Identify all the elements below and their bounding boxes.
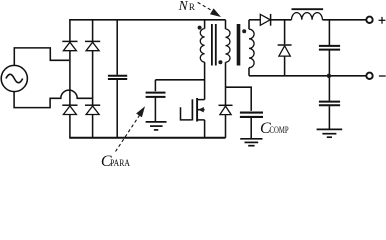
wire source bottom with hop to bridge right node <box>14 90 92 107</box>
diode D1 <box>62 41 77 50</box>
ground for output <box>317 129 343 137</box>
capacitor C2 output upper <box>319 20 340 76</box>
capacitor bulk C1 <box>108 20 127 138</box>
diode D2 <box>85 41 100 50</box>
wire secondary mid rail <box>249 75 366 77</box>
wire secondary top rail <box>322 19 366 21</box>
diode D3 <box>62 105 77 114</box>
node dot reset polarity <box>218 60 222 64</box>
label minus sign <box>379 75 386 77</box>
svg-text:COMP: COMP <box>270 126 289 136</box>
terminal minus <box>366 73 372 79</box>
svg-text:N: N <box>178 0 189 13</box>
diode D5 reset clamp <box>219 87 233 138</box>
terminal plus <box>366 17 372 23</box>
capacitor CPARA <box>146 80 205 121</box>
winding NR reset W2 <box>226 20 231 87</box>
inductor L1 <box>292 9 324 20</box>
label NR <box>178 0 195 13</box>
svg-text:R: R <box>189 2 195 12</box>
transformer core bars left <box>212 24 216 66</box>
diode D7 output rectifier <box>249 14 292 26</box>
capacitor CCOMP <box>240 113 263 138</box>
transformer core bars right <box>237 24 241 66</box>
ac source V1 <box>1 65 27 91</box>
ground for CPARA <box>146 122 167 130</box>
diode D4 <box>85 105 100 114</box>
wire top rail <box>70 19 226 22</box>
wire bridge left branch <box>69 20 71 138</box>
ground for CCOMP <box>240 139 262 146</box>
arrow CPARA dashed <box>116 106 146 151</box>
capacitor C3 output lower <box>319 76 340 129</box>
winding NS secondary W3 <box>249 20 254 76</box>
label CPARA <box>101 153 130 170</box>
diode D6 freewheel <box>278 20 292 76</box>
winding NP primary W1 <box>200 20 204 100</box>
wire source top to bridge left node <box>14 48 69 66</box>
node junction output caps <box>327 74 331 78</box>
node dot primary polarity <box>198 26 202 30</box>
wire clamp node horizontal <box>226 87 252 111</box>
wire bottom rail <box>69 137 225 139</box>
transistor Q1 mosfet <box>181 98 205 138</box>
label CCOMP <box>260 120 289 137</box>
svg-text:PARA: PARA <box>110 159 130 166</box>
arrow NR dashed <box>198 2 221 17</box>
wire bridge right branch <box>92 20 94 138</box>
label plus sign <box>379 17 386 24</box>
node dot secondary polarity <box>242 29 246 33</box>
